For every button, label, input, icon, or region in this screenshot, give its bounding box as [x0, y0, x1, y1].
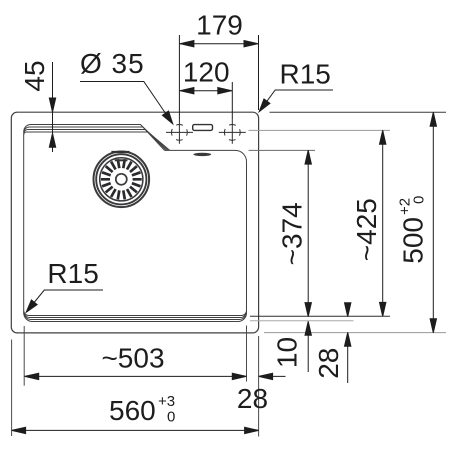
bowl top rim line 1: [24, 125, 165, 151]
extension line bowl right below: [246, 326, 248, 382]
label R15 top: [256, 90, 333, 114]
svg-text:28: 28: [313, 348, 344, 379]
svg-text:120: 120: [183, 56, 230, 87]
extension line bowl outer bottom right: [250, 320, 354, 322]
dimension 45: [49, 62, 55, 152]
svg-text:28: 28: [237, 383, 268, 414]
extension line bowl inner bottom right: [250, 315, 390, 317]
svg-text:Ø 35: Ø 35: [80, 48, 145, 79]
dimension ~425: [380, 130, 386, 316]
dimension Ø35 leader: [80, 82, 176, 126]
extension line top edge right: [270, 111, 447, 113]
bowl bottom rim line 4: [24, 313, 247, 322]
svg-text:R15: R15: [280, 59, 331, 90]
bowl left edge: [23, 134, 25, 312]
dimension 120: [179, 82, 232, 119]
bowl outline: [24, 125, 247, 322]
dimension 500 +2/0: [430, 112, 436, 333]
dimension ~503: [25, 373, 247, 379]
bowl right edge: [246, 162, 248, 312]
tap hole T2 (right): [219, 119, 246, 144]
extension line sink left below: [11, 340, 13, 437]
svg-text:179: 179: [196, 9, 243, 40]
tap hole T1 (left): [166, 119, 193, 144]
svg-text:500: 500: [398, 217, 429, 264]
dimension 10: [305, 321, 311, 372]
svg-text:R15: R15: [47, 258, 98, 289]
sink outer edge: [11, 112, 258, 333]
svg-text:~374: ~374: [276, 202, 307, 265]
label R15 bottom: [23, 290, 103, 315]
svg-text:10: 10: [271, 337, 302, 368]
strainer top dash 1: [111, 151, 129, 153]
extension line ledge right: [249, 149, 316, 151]
extension line tap centerline right: [249, 129, 391, 131]
strainer top dash 2: [115, 159, 128, 161]
dimension 560 +3/0: [12, 427, 259, 433]
dimension 28 horizontal: [259, 373, 286, 379]
bowl bottom rim line 2: [24, 311, 247, 317]
bowl top rim line 2: [24, 127, 167, 150]
bowl bottom rim line 1: [24, 311, 247, 316]
bowl bottom rim line 3: [24, 312, 247, 319]
extension line bowl left below: [23, 326, 25, 386]
svg-text:0: 0: [411, 196, 428, 204]
extension line sink right below: [258, 336, 260, 437]
svg-text:~503: ~503: [101, 342, 164, 373]
svg-text:+3: +3: [158, 393, 175, 410]
bowl ledge edge: [165, 150, 247, 161]
strainer slots: [101, 159, 142, 199]
overflow slot: [193, 153, 211, 156]
dimension ~374: [305, 150, 311, 317]
svg-text:45: 45: [19, 60, 50, 91]
svg-text:560: 560: [109, 395, 156, 426]
svg-text:~425: ~425: [351, 198, 382, 261]
drain strainer: [94, 152, 150, 208]
bowl top rim line 3: [24, 130, 168, 151]
extension line sink outer bottom right: [264, 332, 446, 334]
dimension 28 vertical: [345, 303, 351, 383]
bowl top rim line 4: [24, 132, 170, 150]
tap knockout rectangle: [193, 125, 213, 131]
dimension 179: [179, 35, 258, 119]
svg-text:0: 0: [167, 409, 175, 426]
